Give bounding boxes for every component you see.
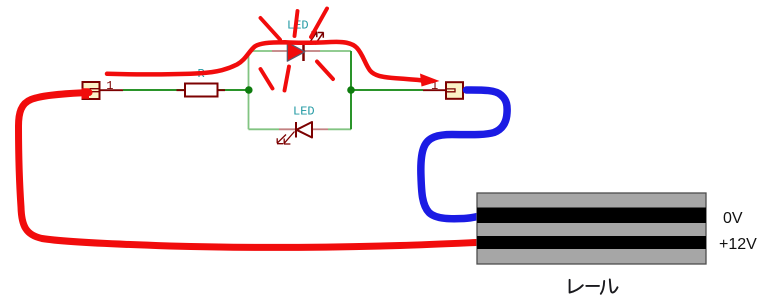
svg-text:LED: LED <box>293 105 315 119</box>
svg-text:1: 1 <box>106 79 113 93</box>
svg-text:0V: 0V <box>723 210 743 227</box>
svg-text:+12V: +12V <box>719 236 757 253</box>
